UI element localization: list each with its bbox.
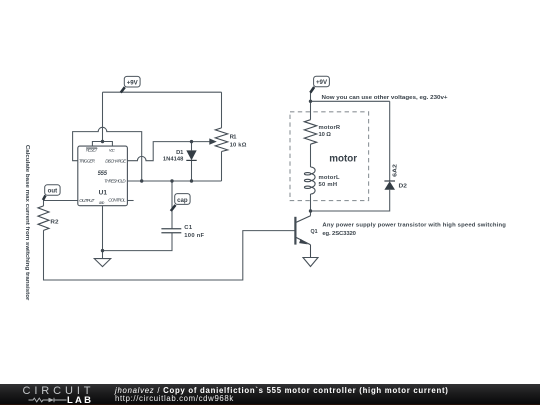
wire R1 bottom to threshold net <box>221 152 223 182</box>
U1 pin labels <box>79 148 127 205</box>
power flag +9V left <box>121 76 140 92</box>
svg-text:6A2: 6A2 <box>392 164 398 177</box>
svg-text:out: out <box>48 188 58 195</box>
RESET active-low overline <box>86 147 97 149</box>
ground (U1) <box>94 259 110 267</box>
resistor R2 <box>38 206 49 231</box>
ground (Q1) <box>303 258 318 267</box>
wire R2 bottom to Q1 base <box>44 230 295 280</box>
wire D2 anode to collector node <box>311 190 390 211</box>
node U1 supply bar <box>101 140 104 143</box>
wire from +9V rail down to 555 supply bar <box>102 92 104 141</box>
R1 wiper arrow <box>209 138 217 144</box>
svg-text:GND: GND <box>99 201 105 205</box>
motor dashed enclosure <box>290 112 369 201</box>
footer bar <box>0 384 540 405</box>
wire motorL to collector node <box>310 194 312 216</box>
svg-text:THRESHOLD: THRESHOLD <box>104 178 126 183</box>
svg-text:Any power supply power transis: Any power supply power transistor with h… <box>322 223 506 229</box>
svg-text:10 kΩ: 10 kΩ <box>230 143 247 149</box>
svg-text:CONTROL: CONTROL <box>108 198 126 203</box>
node D1 bottom <box>190 179 193 182</box>
wire +9V right down to motor <box>310 92 312 120</box>
net flag cap <box>171 194 190 211</box>
wire THRESHOLD net <box>127 180 221 182</box>
wire OUTPUT to R2 <box>44 201 78 206</box>
resistor R1 <box>215 128 227 152</box>
svg-text:555: 555 <box>98 170 108 177</box>
wire U1 GND pin to ground <box>102 206 104 259</box>
wire DISCHARGE to R1 wiper with hop <box>127 142 209 161</box>
op IC 555 U1 box <box>78 146 128 206</box>
svg-text:Calculate base max current fro: Calculate base max current from switchin… <box>24 145 30 301</box>
svg-text:cap: cap <box>177 197 188 204</box>
wire TRIGGER loop with hop over supply wire <box>73 127 142 181</box>
svg-text:RESET: RESET <box>86 148 99 153</box>
svg-text:motor: motor <box>329 153 357 164</box>
svg-text:motorL: motorL <box>319 175 340 181</box>
wire C1 bottom return to ground <box>103 233 173 251</box>
inductor motorL <box>304 167 315 194</box>
svg-text:+9V: +9V <box>316 79 328 86</box>
wire motorR to motorL <box>310 144 312 167</box>
wire D1 branch <box>191 142 193 181</box>
node ground/C1 return <box>101 249 104 252</box>
svg-text:50 mH: 50 mH <box>319 182 338 188</box>
label R1 value <box>230 135 247 149</box>
svg-text:C1: C1 <box>184 225 193 231</box>
wire RESET/VCC supply bar of U1 <box>92 142 112 147</box>
svg-text:D1: D1 <box>176 150 184 156</box>
diode D1 <box>186 150 196 160</box>
node threshold/trigger <box>140 179 143 182</box>
svg-text:R2: R2 <box>50 219 58 225</box>
wire rail to R1 top <box>221 92 223 128</box>
wire +9V to D2 top <box>311 100 390 102</box>
net flag out <box>43 185 60 200</box>
power flag +9V right <box>310 76 329 92</box>
svg-text:eg. 2SC3320: eg. 2SC3320 <box>322 231 356 237</box>
svg-text:TRIGGER: TRIGGER <box>79 158 96 163</box>
transistor Q1 <box>295 216 310 258</box>
CircuitLab logo <box>23 385 95 397</box>
svg-text:Now you can use other voltages: Now you can use other voltages, eg. 230v… <box>322 95 449 101</box>
svg-text:Q1: Q1 <box>311 229 319 235</box>
svg-text:100 nF: 100 nF <box>184 233 204 239</box>
node threshold/C1 <box>170 179 173 182</box>
wire D2 cathode branch <box>389 101 391 181</box>
label D1 value <box>163 150 184 163</box>
junction dots <box>101 100 312 253</box>
svg-text:motorR: motorR <box>319 125 341 131</box>
svg-text:DISCHARGE: DISCHARGE <box>105 159 127 164</box>
label motorL value <box>319 175 340 188</box>
svg-text:VCC: VCC <box>109 148 115 153</box>
capacitor C1 <box>161 229 181 233</box>
Q1 emitter arrow <box>299 239 308 245</box>
svg-text:1N4148: 1N4148 <box>163 157 184 163</box>
svg-text:D2: D2 <box>399 183 407 189</box>
node collector/D2 <box>309 209 312 212</box>
wire threshold to C1 <box>171 181 173 229</box>
node D1 top <box>190 140 193 143</box>
svg-text:R1: R1 <box>230 135 238 141</box>
diode D2 <box>384 181 395 190</box>
resistor motorR <box>304 120 316 145</box>
svg-text:OUTPUT: OUTPUT <box>79 198 95 203</box>
wire +9V top rail left <box>103 91 222 93</box>
svg-text:10 Ω: 10 Ω <box>319 132 332 138</box>
svg-text:U1: U1 <box>99 190 108 197</box>
label C1 value <box>184 225 204 239</box>
wire CONTROL stub <box>127 200 133 202</box>
annotation: transistor note <box>322 223 506 237</box>
svg-text:+9V: +9V <box>127 79 139 86</box>
node +9V/D2 <box>309 100 312 103</box>
label motorR value <box>319 125 341 138</box>
